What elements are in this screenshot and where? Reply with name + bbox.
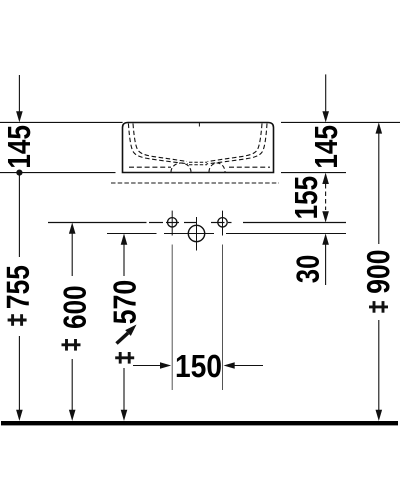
dim 30: text: [296, 256, 319, 283]
basin inner contour right outer: [207, 124, 268, 164]
dim 155: up arrow at rim-bottom line: [322, 173, 329, 184]
dim 570: lower segment with floor arrow: [123, 368, 125, 412]
dim 755: text: [7, 266, 29, 308]
dim 755: line upper segment: [18, 173, 20, 257]
dim 150: right arrow line: [224, 362, 235, 369]
reference line: basin rim level (right of basin): [281, 121, 400, 123]
faucet hole level: solid right: [226, 233, 346, 235]
dim 900: plusminus symbol: [369, 301, 388, 313]
small hole left: [168, 218, 177, 227]
dim 600: plusminus symbol: [62, 339, 81, 351]
dim 600: text: [63, 286, 86, 327]
faucet hole level: solid left (570 reference): [107, 233, 157, 235]
dim 755: line lower segment with floor arrow: [18, 336, 20, 412]
dim 570: plusminus symbol: [115, 352, 134, 364]
dashed countertop line: [111, 182, 279, 184]
dim 155: text: [295, 177, 317, 218]
extension line left (gray) for 150: [171, 245, 173, 391]
dim 570: slope arrow: [117, 333, 129, 344]
dim 600: lower segment with floor arrow: [71, 359, 73, 412]
dim 755: node dot: [16, 170, 22, 176]
dim 600: top arrow: [69, 223, 76, 234]
faucet hole vertical centerline: [196, 217, 198, 251]
drain outline dashes: [189, 161, 207, 163]
dim 155: dashed middle: [325, 184, 327, 210]
hole centerline level: solid left (600 reference): [48, 222, 147, 224]
hole centerline dashes through small holes: [149, 222, 163, 224]
faucet hole crosshair horizontal: [164, 233, 214, 235]
dim 755: plusminus symbol: [8, 314, 27, 326]
washbasin outline: [123, 123, 274, 173]
small hole left vertical centerline: [171, 211, 173, 236]
small hole right: [218, 218, 227, 227]
hole centerline level: solid right: [243, 222, 346, 224]
reference line: basin rim level (left of basin): [0, 121, 123, 123]
dim 900: text: [367, 251, 390, 293]
basin rim center tick: [198, 123, 200, 127]
reference line: basin bottom level (right): [281, 172, 346, 174]
basin inner contour right inner: [208, 124, 263, 162]
dim 150: text: [177, 355, 221, 378]
dim 155: down arrow at hole line: [322, 211, 329, 222]
basin bottom hidden line left: [129, 166, 171, 168]
dim 145 right: upper stub with down arrow: [325, 74, 327, 112]
dim 900: lower segment with floor arrow: [378, 320, 380, 412]
dim 570: text: [113, 281, 136, 324]
small hole right vertical centerline: [222, 211, 224, 236]
basin bottom hidden line right: [229, 166, 270, 168]
extension line right (gray) for 150: [222, 245, 224, 391]
dim 145 right: text: [315, 126, 337, 167]
dim 145 left: upper stub with down arrow: [18, 75, 20, 112]
floor line: [1, 421, 398, 425]
basin inner contour left outer: [128, 124, 188, 164]
dim 900: top arrow up: [376, 122, 383, 133]
dim 570: top arrow: [121, 234, 128, 245]
dim 30: up arrow at big-hole line: [322, 234, 329, 245]
dim 150: left arrow line: [133, 365, 162, 367]
siphon dome arc right: [209, 163, 225, 172]
basin inner contour left inner: [133, 124, 187, 162]
faucet hole (big): [188, 225, 204, 241]
reference line: basin bottom level (left): [0, 172, 116, 174]
dim 145 left: text: [8, 126, 30, 167]
siphon dome arc left: [171, 163, 191, 172]
